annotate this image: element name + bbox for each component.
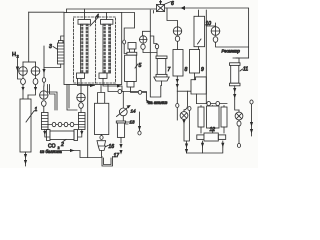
- wire centre dashed axis: [95, 17, 97, 83]
- svg-text:7: 7: [168, 67, 171, 73]
- vessel flask below col9: [191, 77, 206, 104]
- wire vessel5 drain: [131, 87, 147, 92]
- wire thermostat drain left: [87, 85, 89, 158]
- wire box outlet to col4 stubs: [98, 85, 105, 104]
- svg-text:14: 14: [131, 109, 137, 114]
- flow regulator G1: [19, 62, 28, 99]
- vessel U13: [116, 116, 130, 155]
- wire analysis header: [108, 85, 146, 101]
- column U4: [95, 103, 109, 139]
- svg-text:11: 11: [243, 67, 248, 73]
- wire top bus: [29, 8, 249, 62]
- svg-text:5: 5: [139, 63, 142, 69]
- svg-text:из баллона: из баллона: [40, 149, 62, 154]
- column U10: [194, 10, 205, 50]
- wire right down: [205, 26, 207, 104]
- svg-text:9: 9: [201, 67, 204, 73]
- wire feed to furnace U5: [122, 13, 135, 54]
- columns of U12: [198, 106, 227, 133]
- reactor tube R2: [99, 20, 113, 79]
- wire bead pipe between columns: [48, 122, 79, 126]
- column U2b hatched: [78, 113, 85, 138]
- valve V1 arrow into regulator: [160, 0, 162, 5]
- svg-text:16: 16: [109, 144, 115, 150]
- svg-text:2: 2: [60, 142, 64, 148]
- regulator U6 (box with X): [157, 2, 172, 12]
- flow regulator G4: [77, 79, 85, 113]
- svg-text:Реометр: Реометр: [222, 49, 241, 54]
- furnace U5: [125, 43, 137, 88]
- box U17: [102, 157, 113, 167]
- svg-text:H: H: [12, 52, 16, 58]
- column U1: [20, 99, 34, 166]
- thermostat box outer: [64, 13, 122, 85]
- wire CO2 arrow: [62, 151, 102, 158]
- flow regulator G5: [140, 31, 159, 56]
- svg-text:8: 8: [185, 67, 188, 73]
- wire H2 down: [18, 58, 21, 79]
- flow regulator G8: [235, 99, 243, 148]
- flow regulator G6: [167, 8, 182, 50]
- wire manifold to gauges: [23, 61, 36, 63]
- svg-text:13: 13: [130, 120, 136, 125]
- svg-text:3: 3: [49, 44, 52, 50]
- svg-text:12: 12: [210, 127, 216, 133]
- vessel U11: [230, 58, 249, 99]
- svg-text:на анализ: на анализ: [148, 100, 167, 105]
- flow regulator G7: [206, 10, 248, 47]
- column U8: [173, 50, 183, 121]
- label 4 pointer: [90, 19, 97, 27]
- column U9: [190, 50, 200, 80]
- wire manifold 12: [197, 101, 228, 105]
- blower U15: [180, 91, 191, 153]
- wire transfer header: [177, 90, 191, 92]
- wire far right: [250, 100, 253, 136]
- needle valve U14: [117, 92, 131, 117]
- wire riser to bus: [150, 10, 161, 97]
- thermostat dashed enclosure: [74, 17, 116, 83]
- svg-text:17: 17: [114, 153, 120, 159]
- funnel U16: [97, 141, 106, 157]
- column U2a hatched: [42, 113, 50, 138]
- flow regulator G2: [28, 62, 40, 95]
- wire bus arrow: [181, 6, 186, 10]
- svg-text:1: 1: [35, 107, 38, 113]
- flow regulator G3: [40, 46, 48, 113]
- column U3 hatched: [44, 36, 64, 68]
- wire box bottom outlets: [48, 85, 58, 111]
- reactor tube R1: [77, 20, 91, 79]
- furnace U2: [47, 130, 78, 141]
- svg-text:6: 6: [171, 1, 174, 7]
- furnace U12: [187, 133, 226, 153]
- vessel U7: [154, 56, 169, 86]
- node riser left tube: [85, 9, 107, 20]
- wire tube outlets: [78, 78, 123, 91]
- svg-text:2: 2: [17, 54, 20, 59]
- svg-text:4: 4: [96, 14, 99, 20]
- node to analysis: [146, 100, 149, 102]
